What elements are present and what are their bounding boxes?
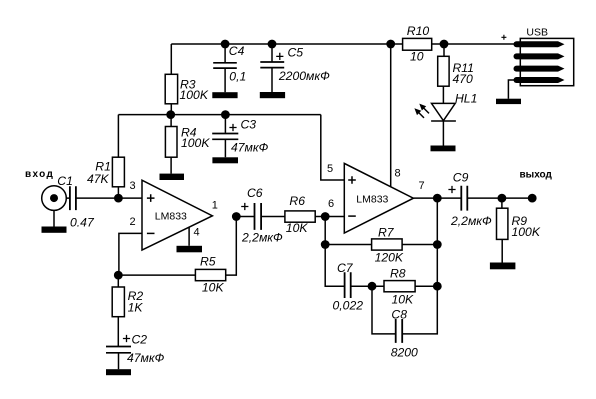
svg-text:R10: R10 — [407, 24, 430, 38]
op-amp U2 LM833 — [344, 163, 413, 233]
resistor R2 — [112, 275, 124, 346]
svg-text:C6: C6 — [247, 186, 263, 200]
svg-text:C4: C4 — [229, 44, 245, 58]
svg-text:2,2мкФ: 2,2мкФ — [450, 214, 492, 228]
label USB — [526, 26, 548, 38]
svg-text:8200: 8200 — [391, 345, 418, 359]
node C4 bus junction — [221, 40, 230, 49]
label R5 — [200, 255, 224, 295]
svg-text:R6: R6 — [289, 194, 305, 208]
ground USB — [496, 99, 521, 104]
node R11 bus junction — [440, 40, 449, 49]
svg-text:3: 3 — [130, 180, 136, 192]
node feedback junction — [114, 271, 123, 280]
label R3 — [180, 77, 209, 102]
resistor R3 — [165, 44, 177, 115]
label R7 — [375, 226, 404, 265]
ground R4 — [160, 174, 185, 180]
wire pin5 from second bus — [321, 115, 345, 180]
svg-text:7: 7 — [419, 180, 425, 192]
node pin8 bus junction — [386, 40, 395, 49]
resistor R8 — [372, 281, 437, 292]
capacitor C8 — [372, 286, 437, 343]
svg-text:6: 6 — [328, 198, 334, 210]
resistor R11 — [438, 44, 449, 103]
label R1 — [87, 160, 111, 186]
label вход — [25, 169, 54, 180]
svg-text:LM833: LM833 — [356, 194, 388, 206]
label U1 LM833 — [155, 211, 187, 223]
resistor R4 — [165, 115, 177, 174]
svg-text:C1: C1 — [57, 174, 73, 188]
svg-text:2200мкФ: 2200мкФ — [278, 69, 330, 83]
node pin6 junction — [321, 212, 330, 221]
pin 2 label — [129, 216, 135, 228]
svg-text:C7: C7 — [337, 261, 354, 275]
capacitor C2 — [106, 335, 131, 369]
label C1 — [57, 174, 95, 229]
pin 8 label — [395, 167, 401, 179]
label R2 — [128, 289, 144, 314]
capacitor C7 — [325, 245, 372, 299]
pin 3 label — [130, 180, 136, 192]
svg-text:100K: 100K — [181, 136, 210, 150]
node C5 bus junction — [268, 40, 277, 49]
svg-text:5: 5 — [327, 163, 333, 175]
label R6 — [286, 194, 309, 235]
svg-text:C2: C2 — [131, 332, 147, 346]
label C9 — [450, 170, 492, 228]
svg-text:LM833: LM833 — [155, 211, 187, 223]
LED HL1 — [414, 103, 456, 145]
node R7 left junction — [321, 240, 330, 249]
resistor R9 — [496, 198, 507, 262]
node C3 bus junction — [221, 110, 230, 119]
svg-text:R5: R5 — [200, 255, 216, 269]
pin 5 label — [327, 163, 333, 175]
node R3R4 bus junction — [166, 110, 175, 119]
label R11 — [453, 61, 474, 86]
node R9 junction — [498, 194, 507, 203]
svg-text:USB: USB — [526, 26, 548, 38]
label C4 — [229, 44, 246, 83]
svg-text:10K: 10K — [202, 280, 225, 294]
wire U2 output — [413, 197, 437, 199]
svg-text:0,1: 0,1 — [229, 70, 246, 84]
label C7 — [332, 261, 363, 313]
ground R9 — [490, 263, 516, 270]
label C2 — [127, 332, 165, 365]
svg-text:470: 470 — [453, 72, 474, 86]
label C6 — [241, 186, 283, 244]
svg-text:1K: 1K — [128, 300, 144, 314]
svg-text:2,2мкФ: 2,2мкФ — [241, 230, 283, 244]
pin 4 ground of U1 — [176, 227, 202, 252]
label R4 — [181, 126, 210, 150]
wire to output terminal — [502, 197, 532, 199]
svg-text:120K: 120K — [375, 250, 404, 264]
svg-text:10K: 10K — [391, 293, 414, 307]
op-amp U1 LM833 — [142, 180, 212, 250]
pin 7 label — [419, 180, 425, 192]
ground HL1 — [431, 146, 456, 152]
pin 6 label — [328, 198, 334, 210]
label C8 — [391, 308, 418, 360]
connector вход X1 — [42, 186, 70, 227]
capacitor C9 — [437, 186, 502, 211]
svg-text:C9: C9 — [453, 170, 469, 184]
label R10 — [407, 24, 430, 64]
svg-text:вход: вход — [25, 169, 54, 180]
svg-text:100K: 100K — [511, 225, 540, 239]
resistor R1 — [112, 115, 124, 199]
svg-text:10: 10 — [410, 50, 424, 64]
wire pin8 from top bus — [390, 44, 392, 187]
svg-text:C5: C5 — [288, 45, 304, 59]
svg-text:R7: R7 — [378, 226, 395, 240]
ground C2 — [106, 369, 131, 375]
capacitor C6 — [236, 203, 285, 230]
svg-text:8: 8 — [395, 167, 401, 179]
label HL1 — [455, 91, 477, 105]
wire right feedback column — [436, 198, 438, 286]
svg-text:C3: C3 — [241, 118, 257, 132]
capacitor C3 — [212, 115, 238, 158]
wire U1 pin2 feedback — [119, 233, 142, 275]
svg-text:10K: 10K — [286, 221, 309, 235]
label R8 — [390, 267, 414, 307]
node выход terminal — [528, 194, 537, 203]
ground C4 — [212, 92, 237, 98]
pin 1 label — [212, 200, 218, 212]
node R7 right junction — [433, 240, 442, 249]
resistor R7 — [325, 239, 437, 250]
svg-text:4: 4 — [193, 227, 199, 239]
resistor R6 — [285, 211, 325, 222]
svg-text:2: 2 — [129, 216, 135, 228]
svg-text:HL1: HL1 — [455, 91, 477, 105]
label C5 — [278, 45, 330, 83]
node U1 output junction — [232, 212, 241, 221]
wire second supply bus — [118, 114, 320, 116]
svg-text:0.47: 0.47 — [70, 215, 95, 229]
ground вход — [41, 226, 66, 232]
svg-text:47мкФ: 47мкФ — [127, 351, 165, 365]
ground C5 — [260, 92, 285, 98]
node pin3 junction — [114, 194, 123, 203]
capacitor C5 — [260, 44, 284, 92]
ground C3 — [212, 157, 238, 163]
capacitor C4 — [213, 44, 237, 92]
svg-text:47K: 47K — [87, 172, 110, 186]
label выход — [520, 170, 553, 181]
capacitor C1 — [70, 186, 142, 210]
label R9 — [511, 214, 540, 239]
node R8 right junction — [433, 282, 442, 291]
resistor R10 — [403, 38, 432, 50]
svg-text:0,022: 0,022 — [332, 298, 363, 312]
svg-text:выход: выход — [520, 170, 553, 181]
svg-text:C8: C8 — [391, 308, 407, 322]
svg-text:47мкФ: 47мкФ — [231, 140, 269, 154]
resistor R5 — [118, 216, 236, 280]
svg-text:1: 1 — [212, 200, 218, 212]
label U2 LM833 — [356, 194, 388, 206]
svg-text:100K: 100K — [180, 88, 209, 102]
wire top supply bus right (R10 to USB) — [432, 43, 517, 45]
svg-text:R8: R8 — [390, 267, 406, 281]
wire top supply bus left — [171, 43, 402, 45]
USB connector — [501, 35, 573, 99]
pin 4 label — [193, 227, 199, 239]
wire left feedback column — [324, 217, 326, 245]
wire pin6 to U2 — [325, 216, 344, 218]
node U2 output junction — [433, 194, 442, 203]
node R8 left junction — [368, 282, 377, 291]
label C3 — [231, 118, 269, 155]
